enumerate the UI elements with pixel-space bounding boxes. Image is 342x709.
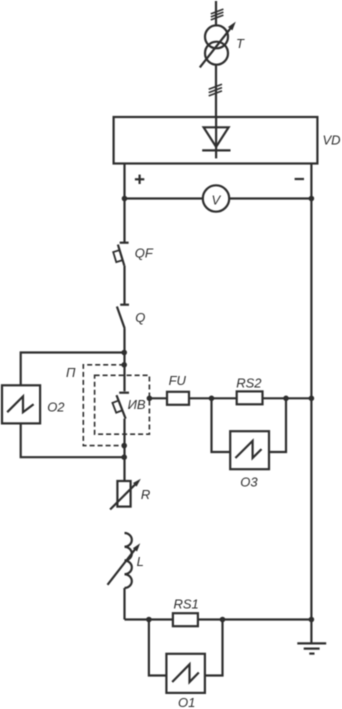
- svg-text:O3: O3: [240, 475, 258, 490]
- svg-text:V: V: [212, 193, 222, 208]
- svg-text:O1: O1: [178, 695, 195, 709]
- svg-text:RS1: RS1: [174, 596, 199, 611]
- svg-text:QF: QF: [135, 246, 154, 261]
- svg-text:O2: O2: [47, 399, 65, 414]
- svg-text:T: T: [236, 36, 245, 51]
- svg-text:ИВ: ИВ: [128, 397, 146, 412]
- svg-text:VD: VD: [323, 132, 341, 147]
- svg-text:RS2: RS2: [236, 375, 262, 390]
- svg-text:R: R: [141, 487, 150, 502]
- svg-text:FU: FU: [169, 373, 187, 388]
- svg-text:П: П: [66, 365, 76, 380]
- svg-text:L: L: [137, 554, 144, 569]
- svg-text:Q: Q: [135, 310, 145, 325]
